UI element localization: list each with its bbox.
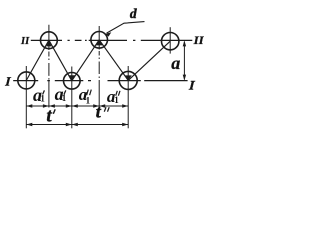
- arrowheads a-dim row at x=26.3 (left end, pointing left): [26, 104, 32, 107]
- junction wedge inside hole bottom-row 3: [125, 75, 132, 80]
- wire: zigzag line c1-b1: [26, 40, 49, 80]
- junction wedge inside hole top-row 1: [46, 40, 51, 46]
- arrowheads a-dim row at x=48.9 (pair): [43, 104, 55, 107]
- hole top-row 2: [91, 32, 108, 49]
- svg-text:t: t: [96, 102, 102, 122]
- vertical dimension line a (between I-I and II-II): [183, 42, 185, 80]
- wire: vertical center/extension line of hole top-row 1: [48, 25, 50, 108]
- wire: II-II horizontal chain line: [31, 39, 193, 41]
- svg-text:II: II: [20, 36, 30, 47]
- wire: zigzag line c2-b2: [72, 40, 99, 81]
- hole top-row 1: [41, 32, 58, 49]
- wire: vertical center/extension line of hole top-row 2: [98, 26, 100, 108]
- junction wedge inside hole bottom-row 2: [69, 75, 75, 81]
- wire: vertical center/extension line of hole bottom-row 3: [127, 66, 129, 128]
- dimension line t-row y=124.5: [26, 124, 128, 126]
- arrowhead t-dim row right end: [122, 123, 128, 126]
- svg-text:1: 1: [114, 95, 119, 105]
- wire: zigzag line c1-b2: [49, 40, 72, 81]
- svg-text:1: 1: [62, 93, 67, 103]
- arrowhead a-dim row at x=128.2 (right end, pointing right): [122, 104, 128, 107]
- hole bottom-row 2: [64, 73, 81, 90]
- arrowhead vertical a-dim bottom: [183, 75, 186, 81]
- hole bottom-row 3: [119, 71, 137, 89]
- arrowhead vertical a-dim top: [183, 40, 186, 46]
- svg-text:I: I: [4, 75, 12, 89]
- svg-text:d: d: [130, 6, 137, 21]
- wire: I-I horizontal chain line: [13, 80, 187, 82]
- wire: vertical center/extension line of hole bottom-row 2: [71, 67, 73, 129]
- arrowheads t-dim row at x=71.8 (pair): [66, 123, 78, 126]
- wire: zigzag line c3-b3: [128, 41, 170, 80]
- dimension line a-row y=106: [26, 105, 128, 107]
- hole top-row 3: [162, 33, 179, 50]
- wire: vertical center line of hole top-row 3: [169, 27, 171, 53]
- junction wedge inside hole top-row 2: [96, 40, 103, 46]
- svg-text:1: 1: [40, 93, 45, 103]
- wire: vertical center/extension line of hole bottom-row 1: [25, 66, 27, 128]
- arrowhead t-dim row left end: [26, 123, 32, 126]
- arrowheads a-dim row at x=99.2 (pair): [93, 104, 105, 107]
- svg-text:II: II: [193, 34, 204, 47]
- arrowhead of d leader: [105, 32, 111, 36]
- svg-text:1: 1: [86, 95, 91, 105]
- svg-text:I: I: [188, 78, 197, 93]
- svg-text:a: a: [171, 53, 180, 73]
- leader line for d: [107, 22, 145, 33]
- wire: zigzag line c2-b3: [99, 40, 128, 81]
- hole bottom-row 1: [18, 72, 35, 89]
- svg-text:t: t: [46, 105, 52, 126]
- arrowheads a-dim row at x=71.8 (pair): [66, 104, 78, 107]
